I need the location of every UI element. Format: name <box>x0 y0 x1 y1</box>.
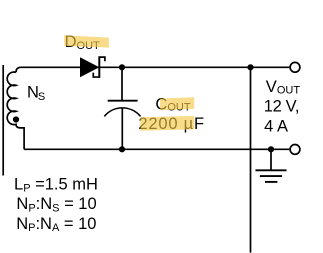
capacitor COUT bottom lead <box>121 108 123 149</box>
wire output vertical <box>250 67 252 252</box>
highlight 2200uF <box>140 116 194 131</box>
diode DOUT triangle <box>80 57 99 77</box>
svg-text:LP =1.5 mH: LP =1.5 mH <box>14 175 98 194</box>
diode DOUT schottky bottom hook <box>93 73 99 77</box>
wire top rail <box>16 67 289 72</box>
junction ground node <box>268 146 274 152</box>
ground <box>256 149 287 182</box>
svg-text:NS: NS <box>27 84 45 103</box>
svg-text:NP:NA = 10: NP:NA = 10 <box>16 215 96 234</box>
junction diode cathode node <box>119 64 125 70</box>
terminal VOUT plus <box>290 62 300 72</box>
polarity dot <box>13 116 19 122</box>
secondary winding NS <box>7 72 24 149</box>
transformer core <box>2 65 4 176</box>
svg-text:VOUT: VOUT <box>266 78 301 97</box>
svg-text:NP:NS = 10: NP:NS = 10 <box>16 195 96 214</box>
capacitor COUT top plate <box>108 100 138 102</box>
capacitor COUT curved plate <box>104 108 140 117</box>
highlight COUT <box>160 97 194 110</box>
wire bottom rail <box>24 148 289 150</box>
terminal VOUT minus <box>290 145 300 155</box>
svg-text:12 V,: 12 V, <box>264 97 299 115</box>
junction output node <box>247 64 253 70</box>
diode DOUT cathode bar <box>98 56 100 78</box>
diode DOUT schottky top hook <box>99 57 105 61</box>
junction capacitor bottom node <box>119 146 125 152</box>
capacitor COUT top lead <box>121 67 123 100</box>
highlight DOUT <box>64 35 109 47</box>
svg-text:4 A: 4 A <box>264 118 288 136</box>
